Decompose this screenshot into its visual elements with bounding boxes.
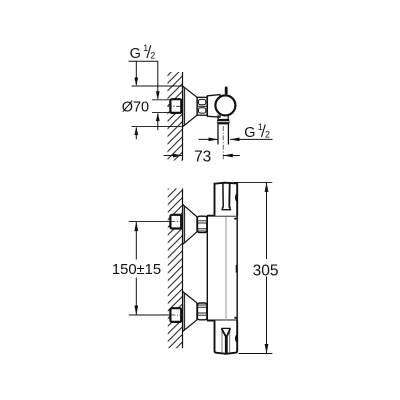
dimension 73 bbox=[164, 149, 240, 166]
valve head circle (top view) bbox=[215, 95, 235, 115]
svg-text:150±15: 150±15 bbox=[112, 262, 161, 278]
bottom in-wall hex bbox=[170, 308, 181, 322]
dimension 305 bbox=[234, 182, 279, 353]
top union centerline bbox=[129, 221, 183, 223]
in-wall hex nut (top view) bbox=[170, 99, 181, 113]
top escutcheon bbox=[183, 204, 197, 244]
dimension Ø70 verticals/arrows bbox=[134, 61, 138, 139]
dimension 150±15 bbox=[112, 222, 161, 315]
pipe (top view) bbox=[218, 124, 228, 144]
svg-text:1: 1 bbox=[143, 43, 148, 53]
svg-text:305: 305 bbox=[253, 262, 279, 279]
top knob bbox=[215, 183, 238, 220]
union nut (top view) bbox=[197, 97, 207, 115]
escutcheon (top view) bbox=[183, 86, 197, 126]
pipe centerline (dash-dot) bbox=[222, 126, 224, 160]
pipe collar bbox=[217, 119, 229, 125]
wall hatch (top view) bbox=[168, 72, 183, 161]
bottom escutcheon bbox=[183, 292, 197, 332]
svg-text:73: 73 bbox=[194, 149, 211, 166]
label G1/2 (right) with leader bbox=[199, 122, 273, 141]
dimension G1/2 (left) verticals/arrows bbox=[156, 61, 160, 130]
svg-text:2: 2 bbox=[265, 129, 270, 139]
top in-wall hex bbox=[170, 215, 181, 229]
wall face line (top view) bbox=[182, 72, 184, 161]
label Ø70 bbox=[122, 100, 149, 116]
label G1/2 (top-left) bbox=[129, 43, 159, 62]
bottom union centerline bbox=[129, 314, 183, 316]
svg-text:G: G bbox=[130, 46, 141, 62]
bottom knob bbox=[215, 317, 238, 354]
mixer body bbox=[207, 216, 237, 321]
wall face line (side view) bbox=[182, 189, 184, 349]
svg-text:G: G bbox=[244, 125, 255, 141]
centerline of fitting (dash-dot) bbox=[167, 105, 207, 107]
extension lines Ø70 bbox=[132, 86, 184, 127]
extension lines G1/2 thread bbox=[152, 100, 170, 113]
bottom union nut bbox=[197, 303, 207, 320]
svg-text:1: 1 bbox=[258, 122, 263, 132]
neck below head bbox=[218, 115, 228, 119]
wall hatch (side view) bbox=[168, 189, 183, 349]
stub pin on top of head bbox=[225, 87, 228, 95]
valve body flare (top view) bbox=[207, 95, 220, 118]
top union nut bbox=[197, 216, 207, 232]
svg-text:2: 2 bbox=[150, 51, 155, 61]
svg-text:Ø70: Ø70 bbox=[122, 100, 149, 116]
